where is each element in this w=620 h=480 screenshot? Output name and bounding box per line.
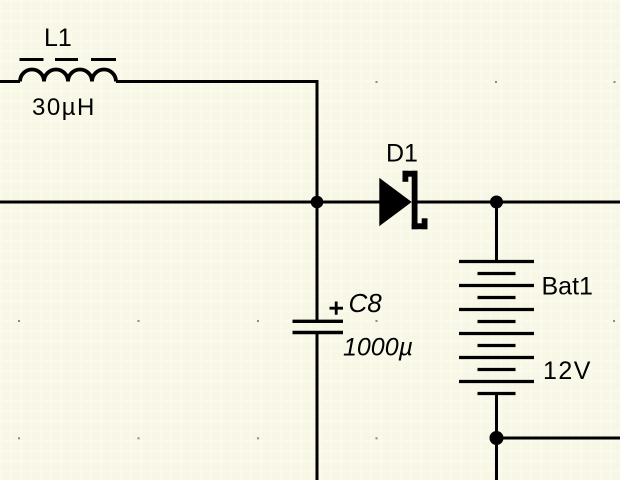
wire bbox=[316, 202, 319, 320]
wire bbox=[497, 437, 620, 440]
svg-text:1000µ: 1000µ bbox=[343, 334, 413, 362]
svg-text:Bat1: Bat1 bbox=[542, 273, 593, 301]
svg-text:12V: 12V bbox=[543, 357, 592, 385]
junction node bbox=[311, 196, 324, 209]
wire bbox=[495, 438, 498, 480]
svg-text:30µH: 30µH bbox=[32, 94, 96, 121]
svg-text:L1: L1 bbox=[44, 24, 72, 52]
wire bbox=[0, 80, 20, 83]
junction node bbox=[490, 431, 504, 445]
diode D1 bbox=[379, 171, 427, 229]
wire bbox=[316, 80, 319, 202]
battery Bat1 bbox=[459, 262, 534, 394]
wire bbox=[418, 201, 620, 204]
inductor L1 bbox=[20, 60, 117, 82]
wire bbox=[495, 394, 498, 439]
svg-text:D1: D1 bbox=[386, 140, 418, 168]
wire bbox=[0, 201, 380, 204]
capacitor C8 bbox=[293, 321, 344, 332]
wire bbox=[316, 334, 319, 480]
wire bbox=[116, 80, 319, 83]
wire bbox=[495, 202, 498, 262]
svg-text:C8: C8 bbox=[349, 288, 383, 318]
junction node bbox=[490, 196, 503, 209]
plus sign bbox=[330, 302, 344, 315]
